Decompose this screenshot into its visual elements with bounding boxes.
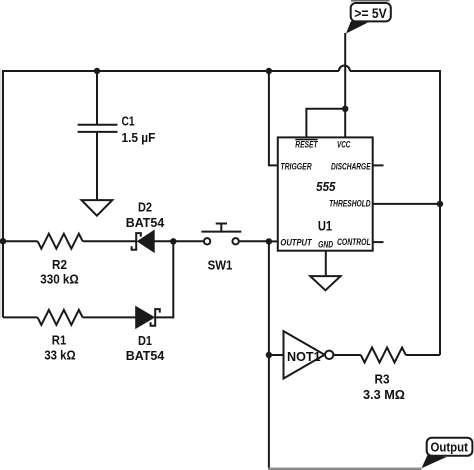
svg-text:C1: C1 <box>122 115 135 129</box>
junction node C1/top wire <box>94 68 100 74</box>
junction node SW1/output <box>266 238 272 244</box>
svg-text:R3: R3 <box>375 373 390 387</box>
wire top horizontal left of hop <box>2 70 339 72</box>
svg-text:Output: Output <box>431 440 469 455</box>
resistor R3 <box>361 348 406 363</box>
wire THRESHOLD <box>373 203 440 205</box>
wire node to SW1 <box>173 240 204 242</box>
svg-text:VCC: VCC <box>337 139 351 149</box>
wire hop over VCC wire <box>339 66 350 72</box>
svg-text:GND: GND <box>318 240 333 250</box>
diode D2 (BAT54 schottky, cathode left) <box>132 231 154 251</box>
svg-text:>= 5V: >= 5V <box>354 6 387 21</box>
power flag >= 5V <box>346 0 391 34</box>
wire OUTPUT pin <box>269 240 278 242</box>
wire R2 left lead <box>3 240 38 242</box>
wire R1 to D1 <box>83 316 137 318</box>
pin label RESET with overline <box>295 139 318 149</box>
svg-text:330 kΩ: 330 kΩ <box>40 273 79 287</box>
svg-text:R2: R2 <box>52 258 67 272</box>
wire D1 branch up to node <box>172 241 174 318</box>
wire right vertical <box>439 70 441 355</box>
pin stub DISCHARGE <box>373 164 384 166</box>
wire right to R3 <box>406 354 440 356</box>
wire VCC pin <box>344 109 346 138</box>
svg-text:RESET: RESET <box>295 139 318 149</box>
junction node VCC/reset <box>342 106 348 112</box>
wire C1 top lead <box>96 71 98 125</box>
junction node trigger/top wire <box>266 68 272 74</box>
wire VCC flag vertical <box>344 33 346 109</box>
resistor R2 <box>38 234 83 249</box>
junction node D2/D1 <box>170 238 176 244</box>
junction node NOT1 input <box>266 352 272 358</box>
svg-text:D2: D2 <box>138 201 152 215</box>
wire trigger vertical <box>269 71 278 165</box>
switch SW1 pushbutton <box>201 224 241 245</box>
wire NOT1 input <box>269 354 284 356</box>
wire top horizontal right of hop <box>350 70 440 72</box>
svg-text:555: 555 <box>316 180 336 194</box>
capacitor C1 <box>78 125 118 132</box>
svg-text:BAT54: BAT54 <box>126 349 165 363</box>
wire R2 to D2 <box>83 240 137 242</box>
svg-text:D1: D1 <box>138 334 152 348</box>
svg-text:TRIGGER: TRIGGER <box>280 161 312 171</box>
svg-text:DISCHARGE: DISCHARGE <box>331 161 371 171</box>
wire output vertical <box>268 241 270 468</box>
pin stub CONTROL <box>373 241 384 243</box>
svg-text:33 kΩ: 33 kΩ <box>44 348 75 362</box>
svg-text:BAT54: BAT54 <box>126 216 165 230</box>
ground (below U1) <box>310 276 340 290</box>
svg-text:U1: U1 <box>318 219 333 234</box>
wire SW1 to output node <box>239 240 269 242</box>
svg-text:3.3 MΩ: 3.3 MΩ <box>363 388 405 402</box>
wire R1 left lead <box>3 316 38 318</box>
inverter NOT1 <box>284 331 334 378</box>
output flag <box>422 438 473 469</box>
junction node threshold/right wire <box>437 201 443 207</box>
wire NOT1 to R3 <box>333 354 360 356</box>
svg-text:CONTROL: CONTROL <box>337 237 371 247</box>
svg-text:1.5 µF: 1.5 µF <box>122 131 156 145</box>
resistor R1 <box>38 310 83 325</box>
svg-text:NOT1: NOT1 <box>287 350 321 364</box>
diode D1 (BAT54 schottky, cathode right) <box>136 307 160 327</box>
wire reset branch <box>306 109 345 138</box>
wire D1 to corner <box>155 316 173 318</box>
svg-text:OUTPUT: OUTPUT <box>280 238 313 248</box>
IC U1 555 box <box>278 137 373 250</box>
wire GND pin <box>325 251 327 276</box>
svg-text:SW1: SW1 <box>208 259 233 273</box>
wire C1 bottom lead <box>96 132 98 200</box>
svg-text:THRESHOLD: THRESHOLD <box>329 198 371 208</box>
ground (below C1) <box>82 200 113 216</box>
wire D2 to node <box>154 240 174 242</box>
svg-text:R1: R1 <box>52 334 67 348</box>
wire bottom gray <box>268 468 422 470</box>
junction node left/R2 <box>0 238 6 244</box>
wire left vertical <box>2 70 4 317</box>
left edge shadow strip <box>0 69 2 319</box>
